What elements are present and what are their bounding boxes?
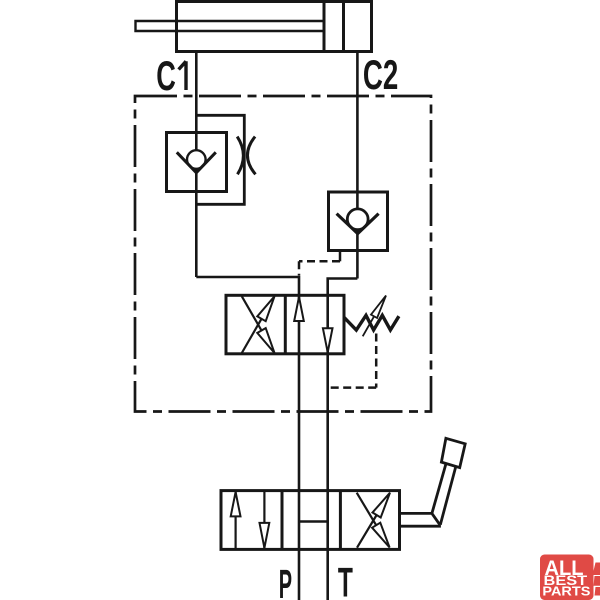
svg-text:C: C (156, 52, 176, 99)
svg-text:T: T (338, 560, 353, 600)
svg-text:P: P (279, 561, 292, 600)
svg-text:C2: C2 (363, 51, 398, 98)
svg-text:PARTS: PARTS (542, 583, 590, 598)
